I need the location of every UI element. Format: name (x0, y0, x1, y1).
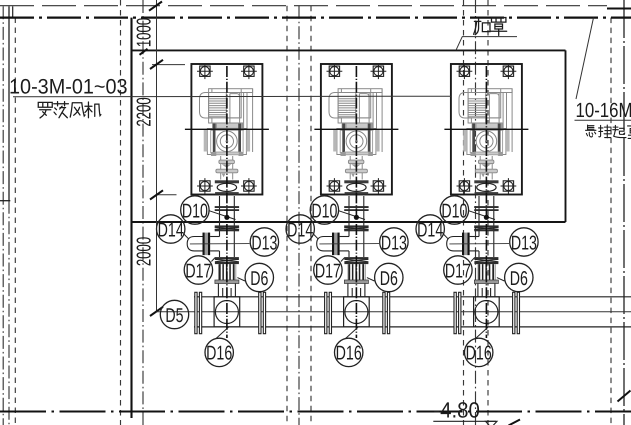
header flange pairs (195, 292, 520, 333)
grid axis cluster unit3: dash-dot (475, 0, 477, 425)
grid axis cluster middle: dash-dot (298, 6, 300, 425)
hood note 加罩 (474, 18, 507, 36)
grid axis line far-left (2, 6, 4, 425)
svg-text:1000: 1000 (134, 18, 156, 47)
crane tag leader (576, 18, 594, 99)
crane tag underline (575, 119, 631, 121)
extension line at unit bottom (156, 194, 177, 196)
header pipe centerline through D5 (157, 311, 631, 313)
svg-text:2000: 2000 (134, 237, 156, 266)
blower enclosure top edge (132, 49, 566, 51)
grid axis right dash-dot bold (623, 0, 625, 425)
top thin dashed line (0, 5, 607, 7)
dimension line (156, 0, 158, 312)
svg-text:D5: D5 (165, 305, 183, 327)
flange pair unit2 right (383, 292, 385, 333)
tick at elevation axis crossing (509, 420, 521, 425)
svg-text:2200: 2200 (134, 97, 156, 126)
flange pair unit2 left (325, 292, 327, 333)
extension line at unit top (152, 64, 185, 66)
dim tick y195 (150, 190, 163, 199)
dim tick y311.5 (150, 307, 163, 316)
elevation triangle symbol (486, 421, 498, 425)
bottom bold dash-dot axis (0, 410, 631, 412)
Roots blower unit 10-3M-02 (286, 63, 408, 366)
Roots blower unit 10-3M-03 (416, 63, 538, 366)
blower enclosure right edge (565, 50, 567, 222)
top bold dash-dot axis (0, 17, 631, 19)
tick bottom right axis crossing (618, 391, 631, 402)
svg-text:10-16M: 10-16M (576, 99, 631, 122)
dim tick y6 (149, 2, 162, 11)
grid axis line x143 dash-dot (142, 0, 144, 425)
grid axis line left dash-dot lower part (8, 201, 10, 425)
grid axis cluster unit3: dashed (463, 0, 465, 425)
svg-text:10-3M-01~03: 10-3M-01~03 (9, 76, 128, 99)
hood note underline (462, 36, 517, 38)
header pipe top wall (194, 296, 631, 298)
grid axis cluster middle: dashed (310, 6, 312, 425)
flange pair unit1 right (259, 292, 261, 333)
flange pair unit3 left (454, 292, 456, 333)
grid axis cluster middle: dashed (286, 6, 288, 425)
left wall line solid (8, 6, 10, 200)
Roots blower unit 10-3M-01 (157, 63, 279, 366)
elevation line (433, 420, 496, 422)
header pipe bottom wall (194, 326, 631, 328)
equipment name 罗茨风机 (38, 102, 101, 118)
hood note leader (456, 37, 462, 51)
svg-text:-4.80: -4.80 (433, 398, 480, 423)
left wall return (0, 200, 10, 202)
grid axis cluster unit3: dashed (487, 0, 489, 425)
flange pair unit3 right (513, 292, 515, 333)
left bold wall line (130, 18, 132, 418)
grid axis line x120 dashed (120, 0, 122, 425)
grid axis line left dashed (14, 18, 16, 425)
equipment tag leader line (13, 95, 451, 98)
small tick at enclosure top on axis x143 (140, 49, 148, 55)
blower enclosure bottom edge (132, 221, 566, 223)
dim tick y64.5 (150, 60, 163, 69)
crane name 悬挂起重 (586, 125, 631, 139)
flange pair unit1 left (195, 292, 197, 333)
top-right bold jog segment (607, 8, 631, 10)
short wall stub top-left (12, 6, 14, 17)
grid axis right dashed (610, 18, 612, 425)
